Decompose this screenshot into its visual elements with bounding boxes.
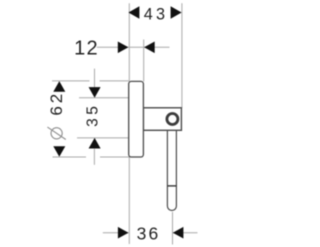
36 dimension line left (103, 232, 129, 234)
35 dim bottom arrow (89, 138, 101, 149)
35 dim top arrow (89, 87, 101, 98)
35 top extension line (79, 97, 129, 99)
plate bottom extension line (53, 156, 87, 158)
plate front extension line (143, 40, 145, 82)
rod joint line (167, 185, 176, 187)
right extension line (arm end) (181, 3, 183, 108)
36 dim left arrow (118, 227, 129, 239)
svg-text:12: 12 (74, 38, 99, 60)
36 dimension line right (173, 232, 198, 234)
35 bottom extension line (77, 137, 129, 139)
svg-text:62: 62 (47, 91, 66, 116)
35 dimension tail top (94, 69, 96, 88)
43 dim left arrow (128, 6, 139, 19)
35 dimension tail bottom (93, 149, 95, 165)
svg-text:36: 36 (137, 224, 161, 244)
label diameter symbol (rotated) (51, 128, 62, 139)
62 dim bottom arrow (53, 146, 65, 157)
holder arm (143, 108, 181, 131)
62 dim top arrow (53, 81, 65, 92)
12 dim right arrow (144, 42, 155, 54)
svg-text:43: 43 (144, 5, 169, 23)
spare roll rod (167, 128, 176, 211)
43 dim right arrow (171, 6, 182, 19)
12 dim left arrow (118, 42, 129, 54)
wall extension line (128, 3, 130, 244)
rod centerline (172, 212, 174, 245)
pivot screw cap (167, 114, 178, 125)
svg-text:35: 35 (85, 102, 102, 126)
12 dimension line (97, 46, 170, 48)
wall plate (side view) (129, 81, 144, 157)
plate top extension line (52, 80, 90, 82)
36 dim right arrow (173, 227, 184, 239)
